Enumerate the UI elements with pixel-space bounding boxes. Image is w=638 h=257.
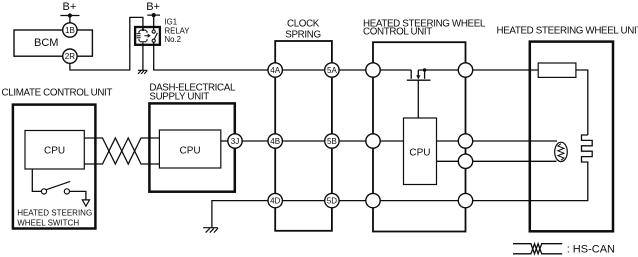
- relay coil top pin dot: [142, 29, 144, 31]
- svg-text:5B: 5B: [327, 137, 337, 146]
- svg-text:4B: 4B: [270, 137, 280, 146]
- connector 2R: [63, 49, 77, 63]
- svg-text:CLIMATE CONTROL UNIT: CLIMATE CONTROL UNIT: [2, 87, 113, 98]
- svg-text:B+: B+: [63, 1, 77, 13]
- connector 5A: [325, 63, 339, 77]
- svg-text:CLOCK: CLOCK: [287, 19, 320, 30]
- wire row A left circle to transistor: [380, 69, 411, 71]
- HEATED STEERING WHEEL SWITCH label: [17, 208, 92, 227]
- svg-text:5D: 5D: [327, 197, 337, 206]
- HEATED STEERING WHEEL UNIT title: [497, 26, 638, 37]
- dash-electrical supply unit box: [149, 103, 234, 191]
- wire transistor to row A right circle: [418, 69, 458, 71]
- wire relay coil to ground: [142, 42, 144, 70]
- BCM unit box: [14, 30, 92, 56]
- legend text HS-CAN: [567, 243, 615, 255]
- heater element: [555, 142, 568, 161]
- node B+ (BCM feed): [63, 1, 77, 13]
- switch blade: [46, 181, 70, 189]
- svg-text:3J: 3J: [231, 137, 239, 146]
- wire ground to 4D (row D): [212, 201, 268, 228]
- svg-text:CONTROL UNIT: CONTROL UNIT: [363, 26, 432, 37]
- wire CPU to row B right circle: [437, 140, 459, 142]
- svg-text:CPU: CPU: [44, 146, 65, 157]
- twisted pair CAN wires climate CPU to dash CPU: [84, 138, 159, 164]
- svg-text:RELAY: RELAY: [165, 26, 191, 35]
- svg-text:SPRING: SPRING: [285, 30, 320, 41]
- connector control unit left A: [366, 63, 380, 77]
- svg-text:1B: 1B: [65, 26, 75, 35]
- CLIMATE CONTROL UNIT title: [2, 87, 113, 98]
- connector control unit right B: [458, 134, 472, 148]
- relay label IG1 RELAY No.2: [165, 17, 191, 44]
- DASH-ELECTRICAL SUPPLY UNIT title: [149, 83, 236, 103]
- wire 5D to control unit (row D): [339, 200, 366, 202]
- wire row D through control unit: [380, 200, 458, 202]
- coil winding: [582, 135, 593, 167]
- relay IG1 No.2 box: [135, 27, 160, 45]
- node B+ (relay feed): [146, 1, 160, 13]
- svg-text:4A: 4A: [270, 66, 280, 75]
- heater resistor: [538, 63, 576, 77]
- connector control unit right A: [458, 63, 472, 77]
- wire 4A to 5A: [282, 69, 324, 71]
- wire 2R to relay coil: [70, 17, 143, 70]
- svg-text:5A: 5A: [327, 66, 337, 75]
- svg-text:4D: 4D: [270, 197, 280, 206]
- connector 1B: [63, 23, 77, 37]
- svg-text:BCM: BCM: [34, 37, 58, 49]
- svg-text:IG1: IG1: [165, 17, 178, 26]
- heater element filament: [558, 144, 564, 161]
- legend twisted pair symbol: [513, 244, 562, 254]
- battery feed terminal tick (BCM): [60, 16, 79, 23]
- wire CPU to heated steering wheel switch: [32, 169, 41, 191]
- heated steering wheel unit box: [530, 42, 613, 232]
- wire coil to row D: [473, 167, 588, 201]
- clock spring box: [275, 41, 332, 231]
- connector control unit left B: [366, 134, 380, 148]
- wire 3J to 4B (row B): [242, 140, 268, 142]
- CPU (heated steering wheel control) box: [404, 118, 437, 185]
- wire 4D to 5D: [282, 200, 324, 202]
- connector 5B: [325, 134, 339, 148]
- svg-text:2R: 2R: [65, 52, 75, 61]
- wire CPU to row C right circle: [437, 160, 459, 162]
- CPU (dash-electrical) box: [159, 130, 220, 168]
- ground (dash-electrical): [203, 228, 218, 233]
- wire 5B to control unit (row B): [339, 140, 366, 142]
- connector control unit right D: [458, 193, 472, 207]
- wire row B left circle to CPU: [380, 140, 403, 142]
- CPU (climate control) box: [25, 131, 84, 170]
- svg-text:B+: B+: [146, 1, 160, 13]
- connector 5D: [325, 193, 339, 207]
- heated steering wheel control unit box: [373, 42, 466, 231]
- connector 4B: [268, 134, 282, 148]
- connector control unit right C: [458, 154, 472, 168]
- svg-text:SUPPLY UNIT: SUPPLY UNIT: [149, 92, 209, 103]
- junction dot B+ BCM: [68, 13, 72, 17]
- relay coil icon: [137, 30, 150, 42]
- connector 4D: [268, 193, 282, 207]
- wire resistor to coil: [576, 70, 588, 135]
- svg-text:No.2: No.2: [165, 35, 181, 44]
- battery feed terminal tick (relay): [147, 15, 160, 31]
- ground (relay coil): [138, 70, 148, 74]
- wire 4B to 5B: [282, 140, 324, 142]
- svg-text:CPU: CPU: [409, 148, 430, 159]
- transistor Q1: [407, 68, 431, 118]
- CLOCK SPRING title: [285, 19, 320, 41]
- svg-text:HEATED STEERING WHEEL UNIT: HEATED STEERING WHEEL UNIT: [497, 26, 638, 37]
- svg-text:WHEEL SWITCH: WHEEL SWITCH: [17, 218, 79, 227]
- svg-text:CPU: CPU: [180, 145, 201, 156]
- climate control unit box: [13, 105, 96, 229]
- wire row C to heater element: [473, 160, 557, 162]
- junction dot B+ relay: [152, 13, 156, 17]
- svg-text:HEATED STEERING: HEATED STEERING: [17, 208, 92, 217]
- wire 5A to control unit (row A): [339, 69, 366, 71]
- connector 3J: [228, 134, 242, 148]
- wire switch to body ground arrow: [70, 191, 86, 200]
- wire relay switch output to 4A (row A): [154, 42, 268, 70]
- BCM label: [34, 37, 58, 49]
- wire dash CPU to 3J: [221, 140, 228, 142]
- body ground arrow: [82, 200, 89, 206]
- relay switch contacts: [152, 30, 157, 42]
- svg-text:: HS-CAN: : HS-CAN: [567, 243, 615, 255]
- wire row B to heater element: [473, 140, 557, 142]
- HEATED STEERING WHEEL CONTROL UNIT title: [363, 18, 486, 37]
- connector 4A: [268, 63, 282, 77]
- wire row A to heater resistor: [473, 69, 539, 71]
- connector control unit left D: [366, 193, 380, 207]
- heated steering wheel switch contacts: [41, 189, 46, 194]
